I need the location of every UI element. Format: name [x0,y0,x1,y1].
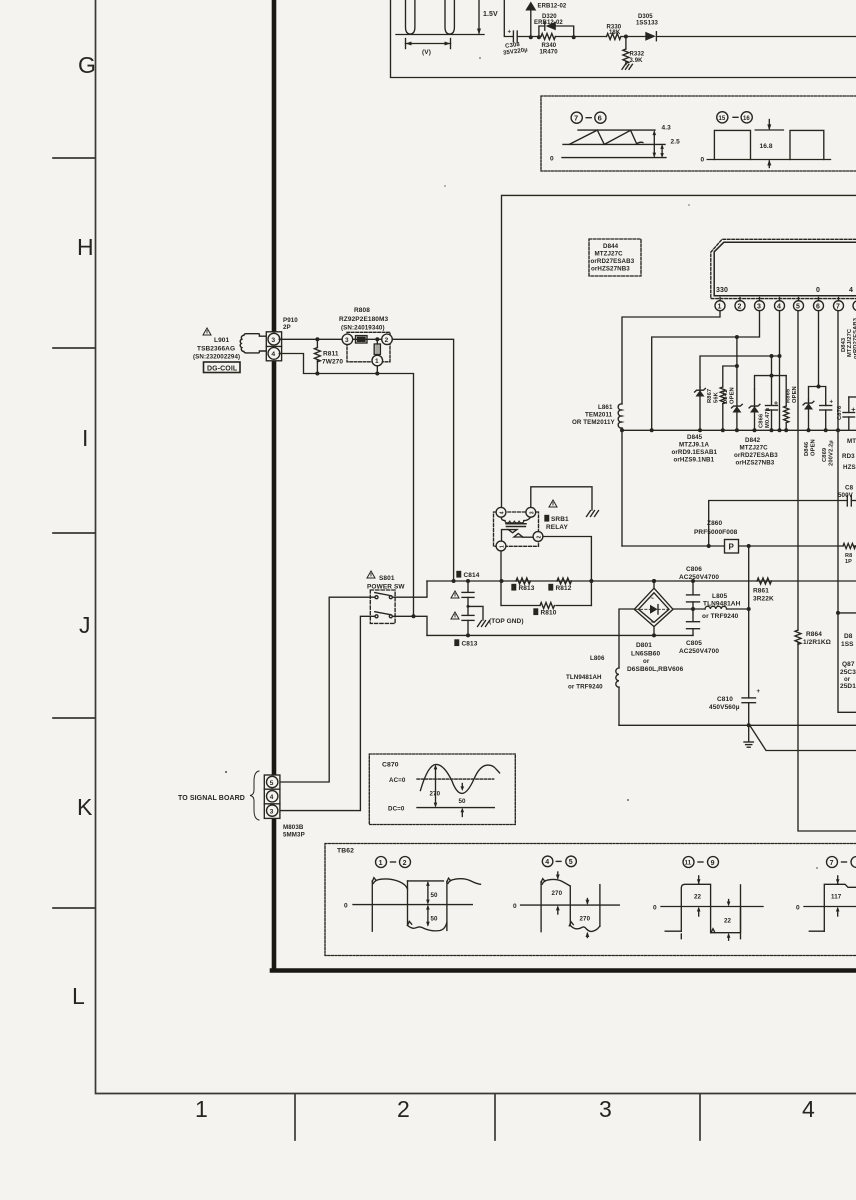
svg-text:2: 2 [738,303,742,310]
svg-text:S801: S801 [379,575,395,582]
svg-text:9: 9 [711,860,715,867]
wire P910 pin3 to R808 [279,338,342,340]
ground TOP GND [478,621,490,627]
svg-text:3R22K: 3R22K [753,596,774,603]
svg-text:I: I [82,425,89,451]
wire top rail [504,0,856,37]
svg-text:7: 7 [830,860,834,867]
label SRB1 RELAY [545,516,569,532]
IC pin 8 (cut at edge) [853,298,856,311]
diode D320 bypass [534,14,576,39]
svg-text:3: 3 [270,808,274,815]
svg-text:D6SB60L,RBV606: D6SB60L,RBV606 [627,666,684,673]
IC pin 5 [794,298,804,311]
svg-text:TSB2366AG: TSB2366AG [197,346,235,353]
inductor L861 [572,404,622,428]
wire pin7 down [836,311,840,613]
svg-text:~: ~ [651,597,655,603]
wire pin3 left branch [650,311,760,433]
wire pin5 line lower [798,643,856,831]
capacitor C308 [502,30,529,57]
row label K [77,794,93,820]
inductor L805 [674,606,749,609]
row label L [72,983,85,1009]
svg-text:0: 0 [344,903,348,910]
svg-text:orHZS9.1NB1: orHZS9.1NB1 [674,457,715,464]
label L901 [193,337,240,361]
wire pin5 down [797,311,799,630]
waveform 4-5 [513,856,619,937]
svg-text:M803B: M803B [283,824,304,831]
wire D841/R867 branch [723,337,739,387]
brace [250,771,259,820]
wire common rail [620,428,856,432]
wire C810 riser [747,546,751,698]
thick board outline horizontal [272,968,856,973]
thermistor Z860 P box [725,540,739,554]
svg-text:7: 7 [574,114,578,123]
svg-text:6: 6 [598,114,602,123]
svg-text:K: K [77,794,93,820]
label P910 2P [283,317,298,331]
svg-text:L861: L861 [598,404,613,411]
svg-text:D305: D305 [638,14,653,20]
svg-text:MTZJ9.1A: MTZJ9.1A [679,442,709,449]
resistor R811 [314,339,343,375]
svg-text:(TOP GND): (TOP GND) [489,618,524,625]
svg-text:G: G [78,52,96,78]
svg-text:D844: D844 [603,243,619,250]
inductor L806 [566,655,619,691]
warning triangle (C813) [451,612,459,619]
svg-text:3: 3 [345,337,349,344]
row label I [82,425,89,451]
label Q801 (edge) [840,661,856,690]
resistor R8 (edge, on P line) [843,543,855,565]
svg-text:OR TEM2011Y: OR TEM2011Y [572,419,615,426]
svg-text:2: 2 [403,860,407,867]
svg-text:C805: C805 [686,640,702,647]
svg-text:4: 4 [802,1096,815,1122]
wire bridge left vertex to L806 [619,609,634,668]
resistor R340 [540,34,559,56]
svg-text:PRF5000F008: PRF5000F008 [694,529,738,536]
warning triangle (L901) [203,328,211,335]
svg-text:5: 5 [569,859,573,866]
zener diode D842 [749,389,760,432]
wire R808 pin2 to AC rail [392,339,455,583]
degauss coil L901 [240,334,266,353]
svg-text:OPEN: OPEN [792,386,798,403]
capacitor C806 [679,566,719,611]
svg-text:MTZJ27C: MTZJ27C [740,445,769,452]
svg-text:D841: D841 [723,389,729,404]
label L805 [702,593,741,620]
capacitor C869 [820,400,834,433]
svg-text:1: 1 [375,358,379,365]
wire S801 bottom-left to connector pin3 [280,616,374,810]
svg-text:SRB1: SRB1 [551,516,569,523]
svg-text:4.3: 4.3 [662,125,672,132]
svg-text:1SS: 1SS [841,641,854,648]
svg-text:orRD27ESAB3: orRD27ESAB3 [591,258,635,265]
label Z860 [694,520,738,536]
svg-text:TB62: TB62 [337,848,354,855]
posistor R808 assembly [342,332,392,366]
resistor R861 [753,578,774,603]
row label H [77,234,94,260]
svg-text:0: 0 [816,287,820,294]
svg-text:L: L [72,983,85,1009]
node junction P line / C867 branch [707,544,711,548]
wire relay pin2 to rail [543,537,593,606]
svg-text:HZS: HZS [843,464,856,471]
svg-text:4: 4 [271,351,275,358]
svg-text:ERB12-02: ERB12-02 [534,20,563,26]
warning triangle (relay) [549,500,557,507]
capacitor C814 [462,579,474,615]
svg-text:MT: MT [847,438,856,445]
wire big-box top edge [502,195,856,507]
capacitor C867 (edge) [838,485,854,507]
svg-text:TEM2011: TEM2011 [585,412,613,419]
capacitor C876 [843,397,856,430]
svg-text:AC250V4700: AC250V4700 [679,574,719,581]
svg-text:16: 16 [743,116,750,122]
svg-text:LN6SB60: LN6SB60 [631,651,661,658]
svg-text:4: 4 [777,303,781,310]
svg-text:25C3: 25C3 [840,669,856,676]
svg-text:Z860: Z860 [707,520,723,527]
svg-text:7: 7 [836,303,840,310]
svg-text:22: 22 [694,893,702,900]
svg-text:C813: C813 [462,641,478,648]
resistor R865 [784,406,789,432]
IC pin 4 [775,298,785,311]
right edge box Q801 [838,613,856,712]
svg-text:C876: C876 [837,405,843,420]
svg-text:4: 4 [849,287,853,294]
svg-text:3: 3 [271,337,275,344]
svg-text:2: 2 [397,1096,410,1122]
svg-text:Q87: Q87 [842,661,855,668]
svg-text:500V: 500V [838,492,854,499]
wire pin4 down [778,311,782,433]
svg-text:270: 270 [552,890,563,897]
waveform 15-16 square wave [701,120,831,168]
waveform 15-16 label [717,112,753,123]
svg-text:2P: 2P [283,324,291,331]
wire AC rail lower [427,634,693,636]
svg-text:DG-COIL: DG-COIL [207,366,238,373]
svg-text:D845: D845 [687,434,703,441]
wire D846/C869 bracket [809,387,826,405]
resistor R330 [607,25,622,40]
resistor R867 [720,387,725,432]
svg-text:R332: R332 [630,52,645,58]
label D842 [734,437,778,467]
svg-text:4: 4 [270,794,274,801]
top section box edge [391,0,856,78]
wire TOP GND tap [467,605,484,620]
svg-text:5: 5 [270,780,274,787]
svg-text:R810: R810 [541,610,557,617]
svg-text:P910: P910 [283,317,298,324]
svg-text:1: 1 [379,860,383,867]
svg-text:1: 1 [500,545,506,548]
label DG-COIL box [204,362,241,373]
svg-text:RD3: RD3 [842,453,855,460]
svg-text:M0.47µ: M0.47µ [765,408,771,428]
waveform 7-8 (cut at edge) [796,857,856,932]
column label 3 [599,1096,612,1122]
svg-text:1/2R1KΩ: 1/2R1KΩ [803,639,831,646]
svg-text:L806: L806 [590,655,605,662]
svg-text:450V560µ: 450V560µ [709,704,740,711]
label TB62 [337,848,354,855]
svg-text:1: 1 [718,303,722,310]
svg-text:P: P [729,543,735,552]
label TO SIGNAL BOARD [178,795,245,802]
svg-text:0: 0 [701,157,705,164]
rotated label C866 [759,408,772,428]
switch S801 [370,590,395,623]
svg-text:+: + [830,400,834,406]
svg-text:25D1: 25D1 [840,683,856,690]
svg-text:(V): (V) [422,49,431,56]
svg-text:R865: R865 [786,388,792,403]
right edge labels MTZ/RD/HZS [842,438,856,471]
label D801 [627,642,684,673]
svg-text:3.9K: 3.9K [630,58,644,64]
wire relay pin1 down [500,551,504,606]
svg-text:200V2.2µ: 200V2.2µ [829,440,835,466]
svg-text:117: 117 [831,893,842,900]
rotated label D843 [841,317,856,359]
warning triangle (C814) [451,591,459,598]
wire L806 down to lower rail [618,687,620,725]
wire relay pin3 to ground [531,487,592,510]
capacitor C810 [709,689,761,727]
ground (relay) [587,511,599,517]
waveform 1-2 [344,857,481,932]
ground (R332) [622,64,632,69]
svg-text:(SN:232002294): (SN:232002294) [193,354,240,361]
svg-text:4: 4 [545,859,549,866]
svg-text:270: 270 [580,915,591,922]
svg-text:3: 3 [757,303,761,310]
svg-text:TLN9481AH: TLN9481AH [703,601,741,608]
wire diagonal to y751 line [751,727,856,751]
svg-text:D8: D8 [844,633,853,640]
svg-text:RELAY: RELAY [546,524,568,531]
svg-text:OPEN: OPEN [730,387,736,404]
svg-text:AC=0: AC=0 [389,777,406,784]
svg-text:R811: R811 [323,351,339,358]
svg-text:R867: R867 [707,389,713,403]
label C813 [455,640,478,648]
svg-text:C8: C8 [845,485,854,492]
svg-text:MTZJ27C: MTZJ27C [595,251,624,258]
svg-text:7W270: 7W270 [322,359,343,366]
svg-text:50: 50 [431,916,439,923]
svg-text:5MM3P: 5MM3P [283,832,305,839]
label S801 POWER SW [367,575,405,591]
wire stub y613 to edge [836,611,856,615]
node junction R332 tap [624,35,628,39]
IC pin 2 [735,298,745,311]
capacitor C866 [766,376,778,433]
svg-text:16.8: 16.8 [760,143,773,150]
svg-text:POWER SW: POWER SW [367,584,405,591]
svg-text:J: J [79,612,91,638]
svg-text:50: 50 [459,798,467,805]
bridge rectifier D801 [634,579,673,637]
svg-text:orHZS27NB3: orHZS27NB3 [736,460,775,467]
row label J [79,612,91,638]
svg-text:D842: D842 [745,437,761,444]
D844 label box [589,239,641,276]
svg-text:R813: R813 [519,585,535,592]
rotated label D846 OPEN [804,439,817,456]
label D8xx 1SS (edge) [841,633,854,648]
svg-text:0: 0 [513,903,517,910]
svg-text:C869: C869 [822,447,828,462]
wire line A to D845 [700,354,780,387]
svg-text:D801: D801 [636,642,652,649]
rotated label C876 [837,405,843,420]
rotated label C869 value [822,440,835,466]
label R808 [339,307,389,332]
waveform box (pins 7-6, 15-16) [541,96,856,171]
svg-text:D846: D846 [804,441,810,456]
svg-text:L901: L901 [214,337,230,344]
svg-text:4: 4 [500,511,506,514]
svg-text:+: + [757,689,761,695]
svg-text:5: 5 [796,303,800,310]
node junction R808 feed [412,614,416,618]
svg-text:~: ~ [651,621,655,627]
svg-text:+: + [508,30,512,36]
thick board outline vertical [272,0,277,969]
svg-text:56K: 56K [714,391,720,403]
svg-text:R861: R861 [753,588,769,595]
waveform 7-6 label [571,112,606,123]
wire L861 down to P line [621,428,623,546]
waveform box C870 [369,754,515,825]
svg-text:1.5V: 1.5V [483,11,498,18]
svg-text:orHZS27NB3: orHZS27NB3 [591,266,630,273]
wire pin6 down [817,311,821,389]
svg-text:R340: R340 [542,43,557,49]
1.5V dimension arrow [477,0,498,35]
zener diode D846 [803,400,814,432]
label D845 [672,434,718,464]
svg-text:AC250V4700: AC250V4700 [679,648,719,655]
svg-text:R864: R864 [806,631,822,638]
svg-text:(SN:24019340): (SN:24019340) [341,325,385,332]
waveform box TB62 [325,844,856,956]
svg-text:R808: R808 [354,307,370,314]
svg-text:C814: C814 [464,572,480,579]
svg-text:1P: 1P [845,559,852,565]
svg-text:TO SIGNAL BOARD: TO SIGNAL BOARD [178,795,245,802]
svg-text:DC=0: DC=0 [388,805,405,812]
ground (C810) [744,725,753,747]
IC hybrid module outline [711,239,856,298]
svg-text:1SS133: 1SS133 [636,21,659,27]
resistor R812 [549,578,572,592]
svg-text:RZ92P2E180M3: RZ92P2E180M3 [339,316,389,323]
svg-text:TLN9481AH: TLN9481AH [566,674,602,681]
svg-text:ERB12-02: ERB12-02 [538,4,567,10]
label C814 [457,572,480,580]
svg-text:1R470: 1R470 [540,49,559,55]
IC pin 1 [715,298,725,311]
rotated label R865 [786,386,799,403]
svg-text:3: 3 [599,1096,612,1122]
column label 2 [397,1096,410,1122]
wire S801 top-right to AC rail [393,581,427,597]
diode D305 [636,14,659,41]
label M803B 5MM3P [283,824,305,839]
wire AC rail upper [427,580,856,582]
wire P line [622,545,856,547]
column label 4 [802,1096,815,1122]
resistor R810 [534,603,557,617]
node junction bridge top [652,579,656,583]
node junction P line / C810 branch [747,544,751,548]
capacitor C805 [679,609,719,655]
waveform 11-9 [653,857,763,941]
IC pin 6 [814,298,824,311]
svg-text:R812: R812 [556,585,572,592]
resistor R813 [512,578,535,592]
wire lower rail y725 [619,724,856,726]
svg-text:2: 2 [537,536,543,539]
svg-text:or: or [643,658,650,665]
svg-text:22: 22 [724,917,732,924]
node junction R811 top [315,337,319,341]
wire P910 pin4 branch [279,354,413,617]
zener diode D841 [732,366,743,432]
zener diode D845 [695,387,706,432]
column label 1 [195,1096,208,1122]
svg-text:C806: C806 [686,566,702,573]
svg-text:6: 6 [816,303,820,310]
svg-text:H: H [77,234,94,260]
rotated label D841 [723,387,736,404]
waveform 7-6 sawtooth [550,125,680,163]
svg-text:OPEN: OPEN [811,439,817,456]
wire pin1 to L861 [622,311,720,404]
row label G [78,52,96,78]
svg-text:1: 1 [195,1096,208,1122]
svg-text:2: 2 [385,337,389,344]
svg-text:15: 15 [719,116,726,122]
wire S801 top-left to connector pin5 [280,597,374,782]
wire R808 pin1 down [375,366,379,376]
wire line C D842/C866/R865 [755,356,787,406]
svg-text:330: 330 [716,287,728,294]
IC pin 3 [755,298,765,311]
svg-text:11: 11 [685,861,692,867]
svg-text:C870: C870 [382,762,399,769]
svg-text:C810: C810 [717,696,733,703]
wire R810 branch [502,605,592,607]
svg-text:or TRF9240: or TRF9240 [568,684,603,691]
svg-text:L805: L805 [712,593,728,600]
